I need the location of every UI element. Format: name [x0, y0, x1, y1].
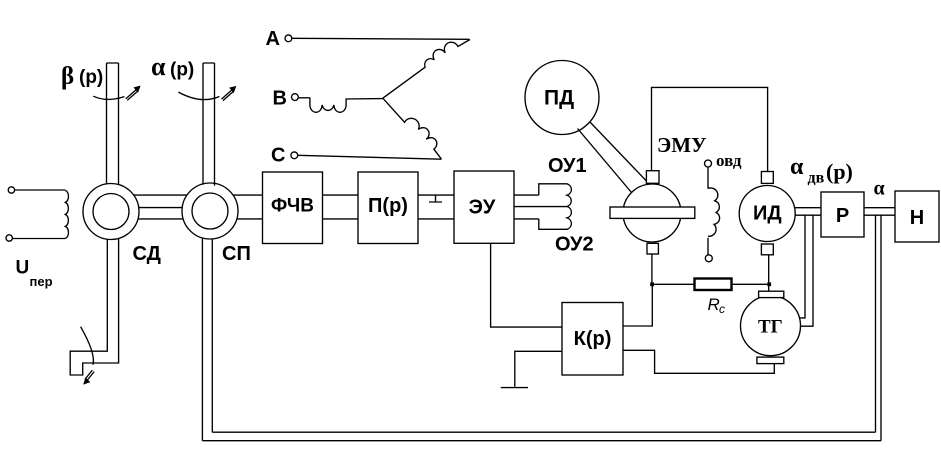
TG bottom brush — [757, 357, 784, 364]
svg-text:R: R — [708, 295, 720, 314]
label B — [273, 88, 287, 110]
winding phase C — [383, 98, 442, 159]
svg-text:дв: дв — [808, 170, 825, 187]
wire phase C — [298, 155, 442, 159]
svg-text:(р): (р) — [826, 159, 853, 184]
label SD — [133, 243, 161, 265]
shaft SD crank — [70, 239, 118, 375]
label EU — [469, 197, 496, 219]
winding phase A — [383, 40, 470, 99]
label OVD — [716, 151, 742, 170]
block P(r) — [358, 172, 418, 244]
ID bottom terminal — [761, 244, 773, 255]
block N load — [895, 191, 939, 242]
resistor Rc — [695, 279, 732, 291]
coil OU2 — [539, 207, 572, 230]
node OVD bottom terminal — [705, 255, 712, 262]
shaft R to N — [864, 208, 895, 216]
EMU top terminal — [646, 171, 659, 184]
svg-text:ОУ2: ОУ2 — [555, 234, 594, 256]
wire EU out bottom — [514, 218, 539, 220]
EMU bottom terminal — [647, 243, 658, 254]
TG top brush — [759, 291, 784, 297]
wire P(r) to EU top — [418, 194, 454, 196]
wire synchro line 2 — [139, 207, 183, 209]
svg-text:ОУ1: ОУ1 — [548, 155, 587, 177]
svg-text:ИД: ИД — [753, 203, 782, 225]
svg-text:овд: овд — [716, 151, 742, 170]
wire synchro line 3 — [138, 218, 183, 220]
label ID — [753, 203, 782, 225]
wire EU feedback down — [491, 243, 562, 327]
svg-text:α: α — [874, 178, 885, 200]
svg-text:В: В — [273, 88, 287, 110]
EMU brush bar — [610, 207, 695, 218]
node junction right — [767, 282, 771, 286]
shaft SD input — [107, 63, 119, 185]
svg-text:α: α — [151, 52, 166, 81]
label Uper — [16, 258, 53, 290]
label FChV — [271, 196, 314, 217]
svg-text:α: α — [790, 154, 804, 180]
selsyn transmitter SD — [83, 184, 139, 240]
wire — [707, 238, 709, 255]
block EU — [454, 171, 514, 243]
svg-text:(p): (p) — [170, 60, 194, 81]
shaft SP input — [203, 63, 215, 186]
label PD — [544, 87, 574, 110]
wire synchro line 1 — [134, 194, 187, 196]
label TG — [758, 317, 783, 338]
svg-text:пер: пер — [30, 274, 53, 289]
shaft feedback bottom outer — [202, 440, 881, 442]
shaft feedback bottom inner — [212, 431, 875, 433]
wire ID bottom down — [768, 255, 770, 291]
svg-text:С: С — [271, 145, 285, 167]
svg-text:СД: СД — [133, 243, 161, 265]
block R reducer — [821, 192, 864, 237]
rotation arc SD — [93, 86, 140, 100]
wire P(r) to EU bottom — [418, 218, 454, 220]
label SP — [222, 243, 251, 265]
label OU1 — [548, 155, 587, 177]
motor ID circle — [739, 186, 795, 242]
node Uper terminal top — [8, 187, 14, 193]
label beta(p) — [61, 63, 103, 90]
shaft ID to R — [795, 208, 821, 216]
node Uper terminal bottom — [6, 235, 12, 241]
svg-text:СП: СП — [222, 243, 251, 265]
wire phase A — [292, 38, 470, 39]
wire K(r) out bottom to TG — [623, 350, 774, 373]
svg-text:Н: Н — [910, 207, 924, 229]
three-phase terminal C — [291, 152, 298, 159]
amplidyne EMU circle — [623, 184, 681, 242]
label EMU — [657, 133, 706, 157]
tachogenerator TG circle — [741, 296, 801, 356]
svg-text:ЭМУ: ЭМУ — [657, 133, 706, 157]
wire — [15, 189, 66, 191]
wire K(r) out top — [623, 284, 652, 326]
svg-text:ПД: ПД — [544, 87, 574, 110]
coil OU1 — [539, 184, 572, 207]
svg-text:П(р): П(р) — [368, 195, 408, 217]
rotation arc SP — [178, 87, 235, 101]
block FChV — [263, 172, 323, 244]
label A — [266, 28, 280, 50]
label C — [271, 145, 285, 167]
wire FChV to P(r) top — [323, 194, 359, 196]
wire — [12, 238, 65, 240]
wire phase B — [298, 97, 310, 99]
label Rc — [708, 295, 726, 316]
wire EU out middle — [514, 206, 567, 208]
shaft SP output down — [202, 239, 212, 441]
three-phase terminal A — [285, 35, 292, 42]
svg-text:β: β — [61, 63, 74, 90]
svg-text:U: U — [16, 258, 30, 279]
capacitor tap symbol — [429, 195, 442, 202]
wire — [707, 167, 709, 189]
svg-text:ТГ: ТГ — [758, 317, 783, 338]
wire EU out top — [514, 194, 539, 196]
inductor Uper winding — [65, 190, 68, 238]
wire SP to FChV top — [233, 194, 263, 196]
label K(r) — [574, 328, 612, 350]
rotation arc crank — [81, 327, 95, 384]
shaft PD to EMU — [578, 122, 647, 193]
shaft feedback right risers — [876, 215, 882, 441]
svg-text:(p): (p) — [79, 67, 103, 88]
svg-text:с: с — [719, 302, 725, 316]
shaft down to TG — [800, 215, 814, 326]
inductor OVD — [708, 188, 720, 236]
wire FChV to P(r) bottom — [323, 218, 359, 220]
winding phase B — [310, 98, 383, 113]
label alpha(p) — [151, 52, 194, 81]
label R — [836, 205, 849, 227]
wire Rc line — [652, 283, 769, 285]
block K(r) — [562, 303, 623, 376]
ID top terminal — [761, 172, 773, 184]
wire EMU top loop — [652, 87, 768, 171]
wire SP to FChV bottom — [237, 218, 263, 220]
svg-text:Р: Р — [836, 205, 849, 227]
ground — [501, 387, 528, 389]
wire EMU bottom down — [651, 254, 653, 284]
label OU2 — [555, 234, 594, 256]
label alpha out — [874, 178, 885, 200]
svg-text:ФЧВ: ФЧВ — [271, 196, 314, 217]
label N — [910, 207, 924, 229]
svg-text:ЭУ: ЭУ — [469, 197, 496, 219]
node junction left — [650, 282, 654, 286]
svg-text:К(р): К(р) — [574, 328, 612, 350]
svg-text:А: А — [266, 28, 280, 50]
three-phase terminal B — [292, 94, 299, 101]
wire K(r) to ground — [515, 351, 562, 386]
label alpha_dv(p) — [790, 154, 853, 187]
label P(r) — [368, 195, 408, 217]
selsyn receiver SP — [182, 183, 238, 239]
motor PD — [525, 61, 599, 135]
node OVD top terminal — [705, 160, 712, 167]
